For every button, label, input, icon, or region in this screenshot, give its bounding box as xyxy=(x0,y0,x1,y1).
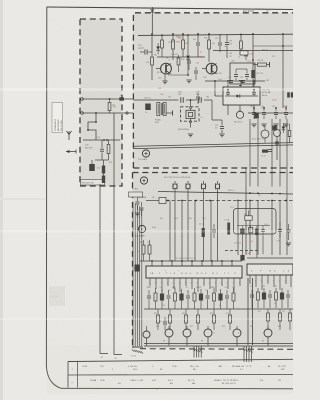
terminal circle wire crossing box edge lower xyxy=(126,112,128,114)
dark capacitor C50 right cluster xyxy=(272,126,276,131)
U1 pin down a xyxy=(227,105,229,115)
wire x209 xyxy=(208,34,210,40)
U3 pins down xyxy=(249,275,251,284)
ground inside sub box xyxy=(239,80,244,82)
capacitor inside U1 left xyxy=(226,91,230,93)
IC bar U3 xyxy=(247,264,293,275)
wire right edge x287 up xyxy=(286,119,288,201)
ground under cluster xyxy=(186,79,191,81)
wire x283 segment2 xyxy=(282,45,284,47)
wire into C11 xyxy=(140,51,144,53)
resistor R22b drop xyxy=(240,41,243,49)
wire x283 down from rail xyxy=(282,34,284,108)
lower circuit tint left part xyxy=(47,345,293,394)
antenna Y symbol xyxy=(68,131,70,140)
faint stamp left margin xyxy=(49,286,65,306)
diode D2 on x188 branch xyxy=(187,35,189,55)
title block top line xyxy=(68,359,293,361)
U1 pin left side xyxy=(215,95,223,97)
wire bundle left inside lower box xyxy=(132,202,134,346)
ground under T1 area xyxy=(162,80,167,82)
T-bar terminator xyxy=(172,111,174,116)
emitter wire T1 to diode branch xyxy=(168,73,170,75)
feedthrough capacitor F3 xyxy=(201,184,206,189)
feedthrough capacitor F1 xyxy=(173,184,178,189)
resistor R42 xyxy=(148,245,151,254)
junction dot x152 rail xyxy=(151,33,153,35)
electrolytic C61 left of bar2 xyxy=(240,255,244,261)
top right box interior tint xyxy=(133,13,293,168)
capacitor C09 in line xyxy=(198,97,200,103)
junction dots input wires xyxy=(109,98,111,100)
IC bar U2 xyxy=(146,266,242,278)
capacitor C22 above IC xyxy=(241,80,245,82)
transistor T2 xyxy=(206,63,217,74)
wire y120 segment xyxy=(211,100,213,120)
dashed bottom edge of tuner box xyxy=(133,167,293,169)
double shield line lower xyxy=(133,145,293,149)
shield bus y192 xyxy=(158,192,293,195)
output transducer circle P0 xyxy=(143,331,150,338)
dashed signal bus y200.5 xyxy=(166,200,293,202)
wire stubs right cluster xyxy=(264,126,266,130)
wires under R41 R42 xyxy=(143,254,145,261)
output transducer circle P2 xyxy=(183,329,191,337)
inner row dark capacitor xyxy=(240,229,244,234)
bundle hatch marks left xyxy=(132,349,134,351)
wire x220 xyxy=(219,34,221,42)
U2 pins down xyxy=(149,278,151,286)
wire base bus y57 xyxy=(157,56,205,58)
IC U1 box xyxy=(223,87,260,105)
resistor R29 horizontal xyxy=(258,63,267,66)
output transducer circle P4 xyxy=(233,329,241,337)
left bar resistor in loop xyxy=(227,223,230,235)
supply rail top y34 xyxy=(138,34,293,35)
wire x102 down xyxy=(101,140,103,148)
resistor R16 xyxy=(208,40,211,49)
title block bottom line xyxy=(61,387,293,390)
wire y81 to IC xyxy=(205,80,265,82)
secondary short rail y46 right xyxy=(253,45,293,47)
feed bus above IC bar2 xyxy=(247,257,293,259)
feedthrough capacitor F2 xyxy=(186,184,191,189)
light channel between boxes xyxy=(122,13,134,186)
title block left edge xyxy=(67,362,69,388)
crystal wire top xyxy=(190,100,192,107)
resistor R08 dark xyxy=(102,176,105,184)
arrow symbol pointing left xyxy=(66,151,76,153)
capacitor C03 xyxy=(100,148,104,150)
long wire W42 down left xyxy=(99,184,101,354)
junction dot x173 xyxy=(172,33,174,35)
circled terminal A xyxy=(142,150,149,157)
rounded enclosure NICI loop xyxy=(234,209,277,235)
crystal bottom junction circle xyxy=(190,121,192,123)
inner row small cap xyxy=(261,229,264,231)
wire from R03 up xyxy=(248,211,250,216)
wire bundle center to title block xyxy=(193,346,195,358)
capacitor C22c xyxy=(244,53,248,55)
dashed enclosure tuner top box xyxy=(133,13,293,168)
small caps on lower box left edge xyxy=(136,201,140,203)
component row under U2 xyxy=(147,295,151,297)
wire x183 xyxy=(182,34,184,40)
U1 pin dot right xyxy=(253,89,255,91)
ground right edge xyxy=(286,242,291,244)
wire x108.5 xyxy=(108,140,110,145)
scanner grain overlay xyxy=(47,6,293,394)
circuit area tint xyxy=(133,13,293,392)
dashed box bottom right segment xyxy=(140,348,293,351)
capacitor C17 xyxy=(218,42,222,44)
wire x152 rail to T1 xyxy=(151,34,153,57)
wire transformer out xyxy=(167,112,173,114)
junction dot zigzag a xyxy=(95,121,97,123)
junction dot crystal top xyxy=(190,99,192,101)
wire W92 corner xyxy=(114,354,122,356)
output transducer circle P5 xyxy=(264,329,272,337)
ground under crystal xyxy=(188,133,193,135)
left dashed box interior tint xyxy=(80,19,122,186)
junction dots on shield bus right xyxy=(249,192,251,194)
cap C43 xyxy=(262,112,266,114)
ground under C24 xyxy=(219,133,224,135)
components crossing shield right xyxy=(276,140,278,160)
crystal Q1 body inner xyxy=(188,112,192,116)
transistor T1 leads xyxy=(156,68,161,70)
series component on wire y99 at box edge xyxy=(119,97,124,100)
tiny mark above U1 xyxy=(239,85,242,87)
feedthrough capacitor F4 xyxy=(215,184,220,189)
antenna feed-through symbol xyxy=(151,9,155,13)
crystal top junction circle xyxy=(190,107,192,109)
resistor R12 xyxy=(151,57,154,65)
resistor R03 inside loop top xyxy=(245,216,252,220)
capacitor C15 xyxy=(196,42,200,44)
title block row column divider xyxy=(77,362,79,388)
dashed enclosure lower box top edge xyxy=(133,172,294,174)
scanner streak light band 3 xyxy=(0,318,293,320)
paper shading left edge xyxy=(0,0,3,400)
electrolytic C49 right cluster xyxy=(254,113,259,119)
junction dot x209 xyxy=(208,33,210,35)
cluster cap C19 xyxy=(194,70,198,72)
inner row wires xyxy=(237,225,270,227)
dashed stub below loop xyxy=(225,250,258,252)
wire input lower y113 xyxy=(82,112,133,114)
cap inside sub box b xyxy=(245,74,249,76)
junction dot x183 xyxy=(182,33,184,35)
transformer TR1 primary coil xyxy=(157,103,160,116)
scanner streak light band 1 xyxy=(0,88,293,91)
junction dot y81 x254 xyxy=(253,80,255,82)
U1 pin dot left xyxy=(227,89,229,91)
U1 pin down c xyxy=(253,105,255,115)
resistor R41 xyxy=(142,245,145,254)
terminal circle input 2 xyxy=(81,112,84,115)
resistor R35 right edge xyxy=(288,131,291,137)
U1 pin up left xyxy=(227,81,229,87)
junction dots right column at caps row xyxy=(253,107,255,109)
junction dot x198 xyxy=(197,33,199,35)
label box EHG-DR1(T)R1 xyxy=(81,180,105,186)
double vertical feed lines right xyxy=(247,278,249,345)
terminal circle wire crossing box edge upper xyxy=(121,98,123,100)
capacitor C23 left of U1 xyxy=(196,96,200,98)
polarized capacitor with plus xyxy=(163,321,167,323)
T-bar right of R29 xyxy=(269,62,271,67)
dashed enclosure EHG-DR1 left box xyxy=(80,19,122,186)
wire into connector xyxy=(146,200,159,202)
resistor R01 between input wires xyxy=(108,103,111,111)
wire x198 xyxy=(197,34,199,42)
bottom double line lower xyxy=(144,345,293,347)
wire x253 to U1 region xyxy=(252,78,254,87)
paper crease band xyxy=(0,198,47,200)
crystal wire bottom xyxy=(190,119,192,121)
long wire W92 down left xyxy=(113,113,115,355)
title block middle line xyxy=(68,373,293,376)
transistor T3 right cluster xyxy=(261,130,269,138)
inner row box component xyxy=(249,228,253,233)
outer frame left border with bottom curl xyxy=(46,7,61,388)
small label box on lower box left edge xyxy=(129,192,143,197)
capacitor inside U1 right xyxy=(252,91,256,93)
outer frame top border xyxy=(47,7,294,10)
wire input upper y99 xyxy=(82,98,133,100)
wire y52 link xyxy=(241,51,246,53)
circled terminal K xyxy=(138,225,145,232)
ground small left edge xyxy=(135,212,140,214)
wire top inside sub box xyxy=(236,68,247,70)
electrolytic capacitor C06 xyxy=(89,164,95,171)
junction dot zigzag b xyxy=(87,129,89,131)
junction dot pair on y140 xyxy=(103,139,105,141)
inductor L13 on rail2 xyxy=(240,51,248,55)
junction dot y81 x228 xyxy=(227,80,229,82)
capacitor C24 to ground xyxy=(220,126,224,128)
capacitor C21 above IC xyxy=(229,80,233,82)
U1 pin up right xyxy=(253,81,255,87)
grounds caps row xyxy=(251,123,256,125)
dark caps right edge xyxy=(287,92,290,97)
zigzag wire segment xyxy=(88,113,96,140)
second sparse row resistors xyxy=(157,315,160,323)
wire x246 upper segment xyxy=(245,168,247,187)
scanner streak light band 2 xyxy=(0,230,293,233)
connector box on dashed bus xyxy=(159,198,166,204)
dashed enclosure lower box left edge xyxy=(132,173,134,349)
right caps row wire y113 xyxy=(248,112,293,114)
wire x173 xyxy=(172,34,174,40)
cap right edge xyxy=(287,229,291,231)
vertical wires from feedthroughs xyxy=(174,192,176,201)
cap inside sub box a xyxy=(234,74,238,76)
antenna feed wire xyxy=(151,7,153,34)
wire W42 corner xyxy=(100,353,108,355)
resistor R13 xyxy=(172,40,175,49)
wire y100 crystal bus xyxy=(133,99,178,101)
capacitor C29 drop xyxy=(226,35,228,42)
U1 pin down b xyxy=(239,105,241,111)
secondary rail y50 right xyxy=(213,50,293,52)
wire y160 joining xyxy=(95,159,109,161)
cap left of sub box xyxy=(212,229,216,231)
terminal circle input 1 xyxy=(81,98,84,101)
wires right column down to shield xyxy=(249,119,251,187)
cap C41 xyxy=(252,112,256,114)
second row right resistors xyxy=(267,313,270,321)
bottom double line upper xyxy=(144,343,293,345)
electrolytic C60 left of bar xyxy=(135,265,140,272)
transistor T4 right cluster xyxy=(274,130,281,137)
extra wire stubs R01 xyxy=(109,99,111,103)
ground bus y309 xyxy=(144,308,293,310)
rotated note label box left margin xyxy=(52,103,63,133)
transistor T2 leads xyxy=(202,68,206,70)
wire bundle right to title block xyxy=(243,346,245,362)
capacitor C11 xyxy=(144,50,146,55)
output transducer circle P1 xyxy=(165,329,173,337)
small caps cluster between transistors xyxy=(187,60,191,62)
cap right of loop xyxy=(278,229,282,231)
diode D1 small xyxy=(156,47,160,50)
circled terminal B xyxy=(140,177,147,184)
transformer TR1 secondary coil xyxy=(163,103,166,116)
junction dots on dashed bus xyxy=(167,200,169,202)
transformer core lines xyxy=(160,103,162,115)
lower box interior tint xyxy=(133,172,294,348)
wire mid y140 xyxy=(83,139,120,141)
resistor R32 dark xyxy=(251,70,254,78)
tick below table xyxy=(156,388,158,391)
IC bar1 pin drops from bus xyxy=(151,261,153,266)
transistor T1 xyxy=(161,63,172,74)
loop to bus wires xyxy=(241,234,243,258)
resistor R05 xyxy=(107,145,110,154)
feed bus above IC bar1 xyxy=(140,260,242,262)
resistor R14 xyxy=(182,40,185,49)
wire x246 pair xyxy=(245,187,247,256)
cap marks on shield right xyxy=(262,150,268,153)
cap C45 xyxy=(274,112,278,114)
right vertical wires to IC bar 2 xyxy=(237,201,239,256)
resistor R11b drop xyxy=(161,40,164,48)
crystal Q1 body outer xyxy=(186,110,195,118)
wire x103.5 to box bottom xyxy=(103,160,105,166)
capacitor C08 in line xyxy=(180,97,182,103)
electrolytic C05 xyxy=(145,104,151,111)
cap C47 xyxy=(284,112,288,114)
diode inside U1 xyxy=(237,94,240,97)
inner row dark resistor xyxy=(255,229,258,235)
cluster resistor R18 xyxy=(177,58,180,65)
wire x253 rail down xyxy=(252,34,254,70)
vertical wires bus to IC bar xyxy=(169,201,171,262)
diode D5 right cluster xyxy=(282,127,286,130)
crystal Q1 dashed shield xyxy=(181,107,200,121)
oscillator sub box xyxy=(230,63,255,84)
output transducer circle P3 xyxy=(204,329,212,337)
resistor R07 dark xyxy=(102,166,105,174)
component row under U3 xyxy=(250,294,254,296)
double shield line upper xyxy=(133,143,293,147)
spark gap device SK2 xyxy=(236,111,243,118)
